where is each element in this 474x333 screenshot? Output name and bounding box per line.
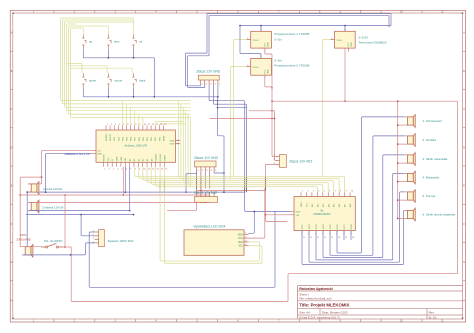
svg-text:ok: ok: [139, 40, 143, 44]
wire blue arduino bottom: [125, 167, 129, 211]
svg-text:2. Grzalka: 2. Grzalka: [423, 138, 437, 142]
wire olive SCL loop: [164, 167, 262, 263]
svg-text:zasilanie 5.5/2.1 5V: zasilanie 5.5/2.1 5V: [64, 152, 89, 156]
speaker LS4 output 1. Odmierzacz: [404, 115, 442, 128]
wire blue relay outputs to speakers: [302, 117, 405, 265]
svg-text:OUT1: OUT1: [302, 223, 304, 229]
wire red speaker return rail: [397, 100, 404, 219]
svg-text:VCC: VCC: [238, 237, 243, 240]
svg-text:OUT3: OUT3: [316, 223, 318, 229]
svg-text:GND: GND: [301, 202, 303, 207]
svg-text:13: 13: [317, 237, 319, 239]
svg-text:Arduino_UNO_R3: Arduino_UNO_R3: [125, 143, 148, 147]
push button SW3 ok: [132, 34, 142, 49]
svg-text:G: G: [11, 261, 13, 264]
speaker LS9 output 6. Silnik obrotu wiaderka: [404, 208, 455, 221]
svg-text:Title: Projekt MLEKOMIX: Title: Projekt MLEKOMIX: [299, 303, 349, 308]
wire red 12V distribution: [210, 100, 458, 160]
svg-text:GND: GND: [238, 233, 244, 236]
svg-text:VCC: VCC: [306, 202, 308, 207]
svg-text:GND: GND: [121, 156, 123, 161]
svg-text:Radoslaw Agatowski: Radoslaw Agatowski: [299, 287, 333, 291]
svg-text:VCC: VCC: [264, 42, 266, 47]
wire red switch to bottom run: [63, 101, 458, 301]
net label zasilanie 5V: [64, 152, 89, 156]
wire blue branch to LCD GND: [249, 211, 256, 234]
svg-text:1: 1: [302, 191, 303, 193]
junction bar sensors at band: [264, 177, 266, 191]
svg-text:File: mlekomix.kicad_sch: File: mlekomix.kicad_sch: [299, 297, 332, 301]
svg-text:Rev:: Rev:: [429, 311, 435, 315]
speaker LS7 output 4. Mieszadlo: [404, 171, 439, 184]
svg-text:PRZEKAZNIKI: PRZEKAZNIKI: [313, 212, 330, 216]
svg-text:1: 1: [331, 38, 332, 40]
push button SW6 back: [132, 73, 146, 88]
connector J2 Zasilacz 230V 5A0: [93, 230, 134, 247]
svg-text:VIN: VIN: [296, 215, 300, 217]
svg-text:Size: A4: Size: A4: [299, 311, 310, 315]
svg-text:0~5.5V: 0~5.5V: [359, 35, 369, 39]
svg-text:14: 14: [324, 237, 326, 239]
wire red sensor2 bottom: [265, 76, 273, 89]
switch SW7 WL. GLOWNY: [41, 239, 63, 248]
wire blue zasilacz pin4 to 230V speaker: [23, 243, 95, 256]
svg-text:bateria 12V/3A: bateria 12V/3A: [43, 187, 62, 191]
svg-text:AREF: AREF: [162, 135, 165, 141]
svg-text:4. Mieszadlo: 4. Mieszadlo: [423, 176, 440, 180]
svg-text:GND: GND: [296, 211, 301, 213]
svg-text:C: C: [11, 108, 13, 111]
svg-text:GND: GND: [267, 69, 269, 74]
wire bus buttons-to-arduino (olive bundle): [61, 18, 191, 118]
wire blue buttons gnd + run to LCD GND: [83, 49, 224, 192]
svg-text:Przeplywomierz 2 YF2008: Przeplywomierz 2 YF2008: [274, 63, 309, 67]
svg-text:GND: GND: [170, 140, 175, 142]
svg-text:H: H: [463, 299, 465, 302]
svg-text:KiCad E.D.A. eeschema (6.0.7): KiCad E.D.A. eeschema (6.0.7): [299, 315, 339, 319]
speaker LS3 230V zasilanie: [22, 245, 33, 258]
svg-text:Zlacze 12V 4OZ: Zlacze 12V 4OZ: [289, 160, 312, 164]
svg-text:RESET: RESET: [104, 154, 106, 162]
svg-text:VCC: VCC: [264, 69, 266, 74]
svg-text:SCL/A5: SCL/A5: [159, 153, 162, 161]
svg-text:down: down: [89, 79, 97, 83]
svg-text:OUT7: OUT7: [344, 223, 346, 229]
svg-text:8: 8: [340, 191, 341, 193]
push button SW1 up: [82, 34, 92, 49]
svg-text:GND: GND: [117, 156, 119, 161]
wire olive thermometer signal: [323, 40, 331, 177]
push button SW5 minus: [107, 73, 122, 88]
svg-text:PULS: PULS: [253, 40, 259, 42]
wire inter-row olive band to buttons down/minus/back: [67, 63, 133, 73]
wire blue relay pins 7-8 stubs: [344, 231, 351, 240]
wire main olive band to relay inputs: [137, 177, 344, 192]
speaker LS2 bateria 2: [28, 200, 64, 213]
svg-text:Zlacze 12V GND: Zlacze 12V GND: [196, 70, 221, 74]
connector J4 Zlacze 12V 4OZ: [194, 191, 218, 203]
wire blue zasilacz pin1 bottom loop: [89, 211, 275, 287]
svg-text:17: 17: [345, 237, 347, 239]
svg-text:Date: Sierpien 2023: Date: Sierpien 2023: [322, 311, 348, 315]
svg-text:1: 1: [247, 38, 248, 40]
svg-text:wyswietlacz LCD 20x4: wyswietlacz LCD 20x4: [194, 224, 226, 228]
wire red vertical 265 descent: [265, 177, 287, 222]
wire corridor extra lines to pins 13-14: [155, 121, 186, 125]
wire corridor right descent: [179, 101, 191, 187]
svg-text:PD1/TX: PD1/TX: [110, 133, 112, 141]
speaker LS5 output 2. Grzalka: [404, 134, 436, 147]
thermometer U4 DS18B20: [330, 28, 387, 52]
lcd display DS1 wyswietlacz LCD 20x4: [184, 224, 249, 255]
svg-text:SDA: SDA: [238, 241, 243, 244]
svg-text:Zasilacz 230V 5A0: Zasilacz 230V 5A0: [108, 239, 134, 243]
wire blue gnd long rail: [29, 191, 290, 211]
svg-text:6. Silnik obrotu wiaderka: 6. Silnik obrotu wiaderka: [423, 213, 456, 217]
wire blue left rail: [26, 191, 28, 255]
svg-text:OUT8: OUT8: [351, 223, 353, 229]
flow sensor U3 Przeplywomierz 2: [247, 55, 310, 79]
svg-text:10: 10: [351, 191, 353, 193]
svg-text:up: up: [89, 40, 93, 44]
svg-text:PD0/RX: PD0/RX: [106, 133, 108, 141]
wire red mid segment: [197, 190, 265, 191]
wire olive SDA loop: [160, 167, 259, 261]
wire junction bars J4 to band: [197, 177, 201, 192]
svg-text:Id: 1/1: Id: 1/1: [429, 315, 437, 319]
wire drops corridor to arduino top pins: [122, 101, 142, 126]
wire arduino bottom feeds into band: [135, 167, 158, 187]
svg-text:18: 18: [352, 237, 354, 239]
svg-text:VCC: VCC: [348, 42, 350, 47]
wire blue thermometer top: [344, 25, 346, 32]
connector J1 Zlacze 12V GND: [196, 70, 221, 86]
wire junction bars J3 to band: [185, 171, 224, 193]
push button SW4 down: [82, 73, 96, 88]
wire red arduino bottom: [122, 167, 124, 195]
flow sensor U2 Przeplywomierz 1: [247, 28, 310, 52]
wire red LCD VCC: [249, 189, 265, 239]
svg-text:15: 15: [331, 237, 333, 239]
svg-text:1. Odmierzacz: 1. Odmierzacz: [423, 119, 443, 123]
wire red relay VIN left: [265, 214, 290, 216]
junction bars double mid band: [245, 177, 247, 192]
svg-text:11: 11: [303, 237, 305, 239]
svg-text:minus: minus: [114, 79, 123, 83]
net label 230V ZASILANIE: [17, 233, 31, 241]
svg-text:H: H: [11, 299, 13, 302]
speaker LS1 bateria 12V/3A: [28, 182, 62, 195]
wire red J4 bottom hook: [167, 202, 197, 210]
wire blue gnd rail bateria2: [29, 210, 131, 212]
svg-text:3: 3: [313, 191, 314, 193]
svg-text:G: G: [463, 261, 465, 264]
svg-text:9: 9: [346, 191, 347, 193]
junction bars near x163: [160, 181, 164, 194]
connector J3 Zlacze 12V GND mid: [194, 156, 219, 172]
wire blue nested loop to connector J1: [185, 53, 246, 192]
connector J5 Zlacze 12V 4OZ right: [274, 155, 313, 168]
wire blue top bus: [207, 14, 391, 56]
wire red +5V to bateria1: [29, 150, 92, 184]
svg-text:GND: GND: [170, 143, 175, 145]
wire blue sensor2 top: [239, 25, 261, 59]
svg-text:D: D: [463, 146, 465, 149]
speaker LS6 output 3. Silnik mieszadla: [404, 153, 447, 166]
svg-text:SDA/A4: SDA/A4: [155, 153, 158, 161]
wire drops to buttons up/plus/ok: [83, 20, 133, 34]
svg-text:16: 16: [338, 237, 340, 239]
arduino U1 Arduino_UNO_R3: [92, 124, 181, 171]
wire red bateria2 plus rail: [29, 202, 210, 203]
svg-text:OUT4: OUT4: [323, 223, 325, 229]
wire blue zasilacz pin2: [81, 215, 94, 236]
svg-text:IOREF: IOREF: [164, 154, 166, 161]
svg-text:4: 4: [318, 191, 319, 193]
wire red 12V rail mid: [19, 194, 209, 196]
wire red 230V to switch: [23, 246, 42, 248]
wire red left rail: [20, 176, 42, 246]
svg-text:D: D: [11, 146, 13, 149]
svg-text:WL. GLOWNY: WL. GLOWNY: [44, 239, 63, 243]
svg-text:OUT6: OUT6: [337, 223, 339, 229]
speaker LS8 output 5. Pompa: [404, 190, 435, 203]
svg-text:6: 6: [329, 191, 330, 193]
svg-text:3. Silnik mieszadla: 3. Silnik mieszadla: [423, 157, 448, 161]
relay module U5 8x przekazniki: [290, 191, 356, 239]
svg-text:2 bateria 12V/3A: 2 bateria 12V/3A: [42, 206, 64, 210]
svg-text:ZASILANIE: ZASILANIE: [17, 237, 31, 241]
svg-text:GND: GND: [97, 153, 102, 155]
svg-text:GND: GND: [351, 42, 353, 47]
wire blue sensor1 top: [260, 25, 262, 32]
svg-text:5. Pompa: 5. Pompa: [423, 194, 436, 198]
svg-text:OUT5: OUT5: [330, 223, 332, 229]
wire olive sensor1 signal: [234, 40, 247, 177]
wire blue GND to bateria1: [29, 153, 92, 192]
svg-text:1: 1: [247, 65, 248, 67]
wire red J5 pin3 to band: [265, 164, 275, 176]
svg-text:plus: plus: [114, 40, 120, 44]
wire olive sensor2 signal: [231, 67, 247, 179]
svg-text:Zlacze 12V GND: Zlacze 12V GND: [194, 156, 219, 160]
svg-text:0~2m: 0~2m: [274, 58, 282, 62]
svg-text:PULS: PULS: [337, 40, 343, 42]
svg-text:back: back: [139, 79, 146, 83]
svg-text:OUT2: OUT2: [309, 223, 311, 229]
svg-text:+5V: +5V: [97, 150, 101, 152]
svg-text:7: 7: [335, 191, 336, 193]
svg-text:0~2m: 0~2m: [274, 37, 282, 41]
svg-text:12: 12: [310, 237, 312, 239]
wire blue aux rail left: [26, 214, 134, 216]
push button SW2 plus: [107, 34, 120, 49]
svg-text:Przeplywomierz 1 YF2008: Przeplywomierz 1 YF2008: [274, 32, 309, 36]
svg-text:PULS: PULS: [253, 67, 259, 69]
svg-text:2: 2: [307, 191, 308, 193]
svg-text:SCL: SCL: [238, 245, 243, 248]
svg-text:Termometr DS18B20: Termometr DS18B20: [359, 40, 387, 44]
title block: [298, 286, 463, 320]
svg-text:5: 5: [324, 191, 325, 193]
wire red thermometer bottom: [344, 48, 346, 102]
svg-text:C: C: [463, 108, 465, 111]
wire red sensor1 bottom: [265, 48, 276, 157]
svg-text:GND: GND: [267, 42, 269, 47]
svg-text:VIN: VIN: [125, 157, 127, 161]
